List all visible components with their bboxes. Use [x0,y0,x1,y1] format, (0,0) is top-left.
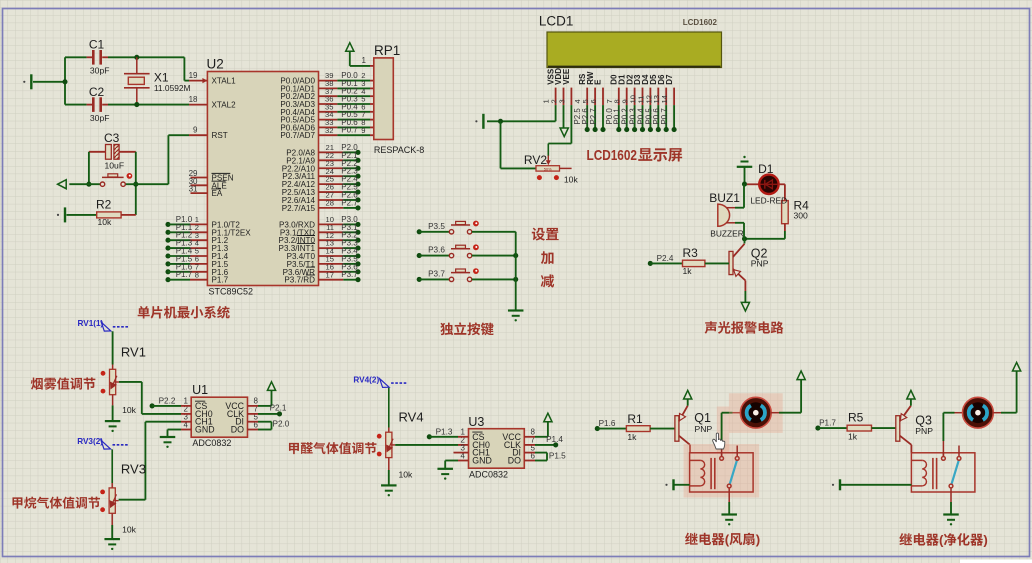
svg-text:9: 9 [361,126,365,135]
svg-text:10k: 10k [399,469,414,479]
svg-text:P2.7/A15: P2.7/A15 [282,204,316,213]
svg-text:6: 6 [589,99,598,103]
svg-text:50%: 50% [544,166,552,171]
svg-text:LED-RED: LED-RED [750,196,787,206]
svg-text:P1.7: P1.7 [212,276,229,285]
svg-text:28: 28 [326,199,334,208]
svg-text:D7: D7 [665,74,674,85]
svg-text:(: ( [725,532,730,547]
svg-text:P2.7: P2.7 [589,108,598,124]
svg-text:LCD1602: LCD1602 [683,18,718,27]
svg-text:300: 300 [794,211,809,221]
svg-text:LCD1: LCD1 [539,14,574,29]
svg-text:31: 31 [189,185,198,194]
svg-text:DO: DO [231,425,244,435]
svg-text:RV1: RV1 [121,344,146,359]
svg-text:P1.6: P1.6 [599,419,616,428]
svg-text:19: 19 [189,71,198,80]
svg-text:U3: U3 [468,415,484,429]
svg-text:RV3: RV3 [121,462,146,477]
svg-text:): ) [756,532,760,547]
svg-text:C3: C3 [104,131,120,145]
svg-text:R3: R3 [683,246,699,260]
svg-text:P2.4: P2.4 [657,254,674,263]
svg-text:9: 9 [193,126,198,135]
svg-text:BUZZER: BUZZER [710,229,744,239]
svg-text:P3.6: P3.6 [428,246,445,255]
svg-text:BUZ1: BUZ1 [709,191,740,205]
svg-text:STC89C52: STC89C52 [209,287,254,297]
svg-text:LCD1602: LCD1602 [587,147,638,164]
svg-text:P1.7: P1.7 [176,270,193,279]
svg-text:ADC0832: ADC0832 [192,438,231,448]
svg-text:R2: R2 [96,198,112,212]
svg-text:PNP: PNP [751,259,769,269]
svg-text:P0.7/AD7: P0.7/AD7 [280,131,315,140]
svg-text:PNP: PNP [695,424,713,434]
svg-text:14: 14 [660,95,669,103]
svg-text:P2.1: P2.1 [270,403,287,412]
svg-text:RESPACK-8: RESPACK-8 [374,145,424,155]
svg-text:): ) [983,533,987,548]
svg-text:P1.4: P1.4 [546,435,563,444]
svg-text:D1: D1 [758,162,774,176]
svg-text:(: ( [939,533,944,548]
svg-text:10k: 10k [122,525,137,535]
svg-text:1k: 1k [848,432,858,442]
svg-text:1k: 1k [627,432,637,442]
svg-text:P3.7: P3.7 [428,269,445,278]
svg-text:P2.7: P2.7 [341,198,358,207]
svg-text:DO: DO [508,456,521,466]
svg-text:1k: 1k [683,266,693,276]
svg-text:VEE: VEE [562,68,571,85]
svg-text:P0.7: P0.7 [660,108,669,124]
svg-text:RV4(2): RV4(2) [353,376,379,385]
svg-text:11.0592M: 11.0592M [154,83,191,93]
svg-text:R5: R5 [848,411,864,425]
svg-text:P3.5: P3.5 [428,222,445,231]
svg-text:RST: RST [212,131,228,140]
svg-text:10k: 10k [564,175,579,185]
svg-text:P0.7: P0.7 [341,126,358,135]
svg-text:P2.0: P2.0 [273,419,290,428]
svg-text:GND: GND [472,456,492,466]
svg-text:8: 8 [195,270,199,279]
svg-text:P1.3: P1.3 [436,427,453,436]
svg-text:RV4: RV4 [399,410,424,425]
svg-text:C2: C2 [89,85,105,99]
svg-text:30pF: 30pF [90,66,110,76]
svg-text:30pF: 30pF [90,113,110,123]
svg-text:R1: R1 [627,412,643,426]
svg-text:E: E [594,79,603,85]
svg-text:EA: EA [212,189,223,198]
svg-text:RV3(2): RV3(2) [77,437,103,446]
svg-text:P2.2: P2.2 [159,396,176,405]
svg-text:17: 17 [326,270,334,279]
svg-text:XTAL2: XTAL2 [212,101,237,110]
svg-text:P3.7: P3.7 [341,270,358,279]
svg-text:P1.5: P1.5 [549,451,566,460]
svg-text:RV2: RV2 [524,153,547,167]
svg-text:10k: 10k [98,217,113,227]
svg-text:XTAL1: XTAL1 [212,77,237,86]
svg-text:RP1: RP1 [374,43,400,58]
svg-text:GND: GND [195,425,215,435]
svg-text:10k: 10k [122,405,137,415]
svg-text:U1: U1 [192,383,208,397]
svg-text:ADC0832: ADC0832 [469,470,508,480]
svg-text:U2: U2 [207,57,224,72]
svg-text:PNP: PNP [915,426,933,436]
svg-text:1: 1 [362,56,367,65]
svg-text:32: 32 [325,126,333,135]
svg-text:3: 3 [557,99,566,103]
svg-text:C1: C1 [89,38,105,52]
svg-text:RV1(1): RV1(1) [78,319,104,328]
svg-text:P1.7: P1.7 [819,418,836,427]
svg-text:18: 18 [189,95,198,104]
svg-text:10uF: 10uF [105,161,125,171]
svg-text:P3.7/RD: P3.7/RD [284,276,315,285]
